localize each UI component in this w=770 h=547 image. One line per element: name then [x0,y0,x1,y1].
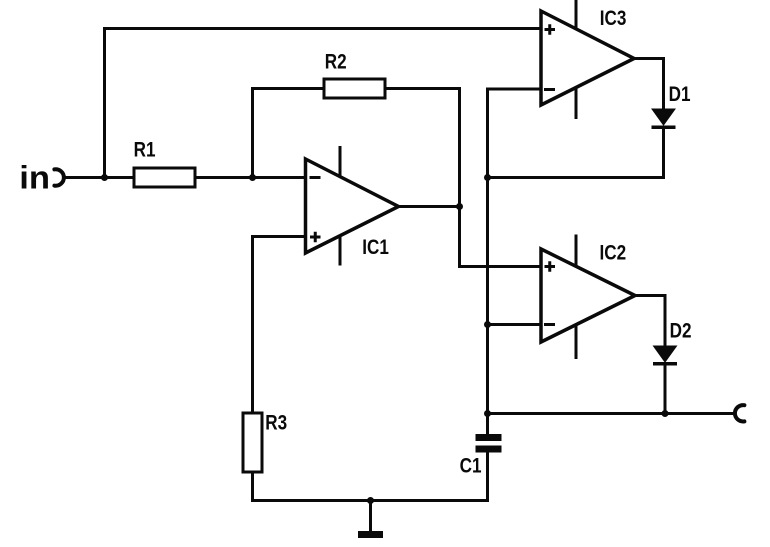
wire IC1 output [399,205,462,208]
op-amp IC1 non-inverting input marker [310,232,321,243]
capacitor C1 bottom plate [476,446,502,453]
svg-text:R2: R2 [325,50,347,74]
output terminal [735,405,744,421]
op-amp IC2 inverting input marker [544,323,555,326]
op-amp IC1 inverting input marker [310,176,321,179]
wire D2 cathode to output rail [664,364,667,414]
op-amp IC3 [541,0,634,119]
wire D1 cathode down and left to node B [488,128,664,178]
wire input to IC1 inverting input [64,176,305,179]
node A R1-R2-IC1 junction [249,174,256,181]
svg-text:IC2: IC2 [600,241,627,265]
op-amp IC2 positive supply pin [575,235,578,266]
svg-text:IC3: IC3 [600,6,627,30]
op-amp IC2 non-inverting input marker [545,261,556,272]
diode D2 anode triangle [654,346,677,362]
capacitor C1 top plate [476,434,502,441]
wire ground stub [369,501,372,532]
ground [358,531,383,538]
op-amp IC3 negative supply pin [575,88,578,119]
diode D1 anode triangle [652,109,675,125]
node B IC2 inverting junction [484,321,491,328]
wire input node up and across top to IC3 non-inverting input [105,29,542,178]
node D2 output junction [662,410,669,417]
op-amp IC2 body [541,249,635,342]
node B output rail junction [484,410,491,417]
op-amp IC3 body [541,11,634,105]
wire IC1 non-inverting input from R3 [253,237,306,414]
node ground junction [367,497,374,504]
wire IC3 inverting input down node B to C1 top plate [488,89,542,434]
op-amp IC2 [541,235,635,360]
wire output rail to output terminal [488,412,735,415]
input terminal [54,169,63,185]
op-amp IC1 negative supply pin [339,236,342,266]
resistor R1 [134,168,195,187]
op-amp IC3 non-inverting input marker [545,24,556,35]
op-amp IC1 body [306,159,399,253]
svg-text:in: in [19,160,50,196]
wire R3 bottom along ground rail to C1 bottom plate [253,453,488,501]
op-amp IC2 negative supply pin [575,325,578,359]
svg-text:R1: R1 [134,138,156,162]
svg-text:C1: C1 [460,454,482,478]
svg-text:R3: R3 [265,411,287,435]
wire IC2 output to D2 anode [635,296,665,348]
wire node B to IC2 inverting input [488,323,542,326]
resistor R3 [243,413,262,472]
node B D1 return junction [484,174,491,181]
resistor R2 [324,79,385,98]
svg-text:IC1: IC1 [362,235,389,259]
capacitor C1 [460,434,502,478]
svg-text:D1: D1 [669,82,691,106]
diode D2 [653,319,691,366]
op-amp IC3 inverting input marker [544,88,555,91]
diode D1 [652,82,691,129]
diode D1 cathode bar [652,126,676,130]
op-amp IC1 [306,146,399,266]
node input junction [101,174,108,181]
diode D2 cathode bar [653,362,677,366]
op-amp IC3 positive supply pin [575,0,578,28]
wire IC3 output to D1 anode [634,59,664,111]
node IC1 output junction [456,203,463,210]
wire R2 right side down to IC2 non-inverting input [385,89,541,267]
svg-text:D2: D2 [670,319,692,343]
wire R2 left leg from node A [253,89,325,178]
op-amp IC1 positive supply pin [339,146,342,176]
